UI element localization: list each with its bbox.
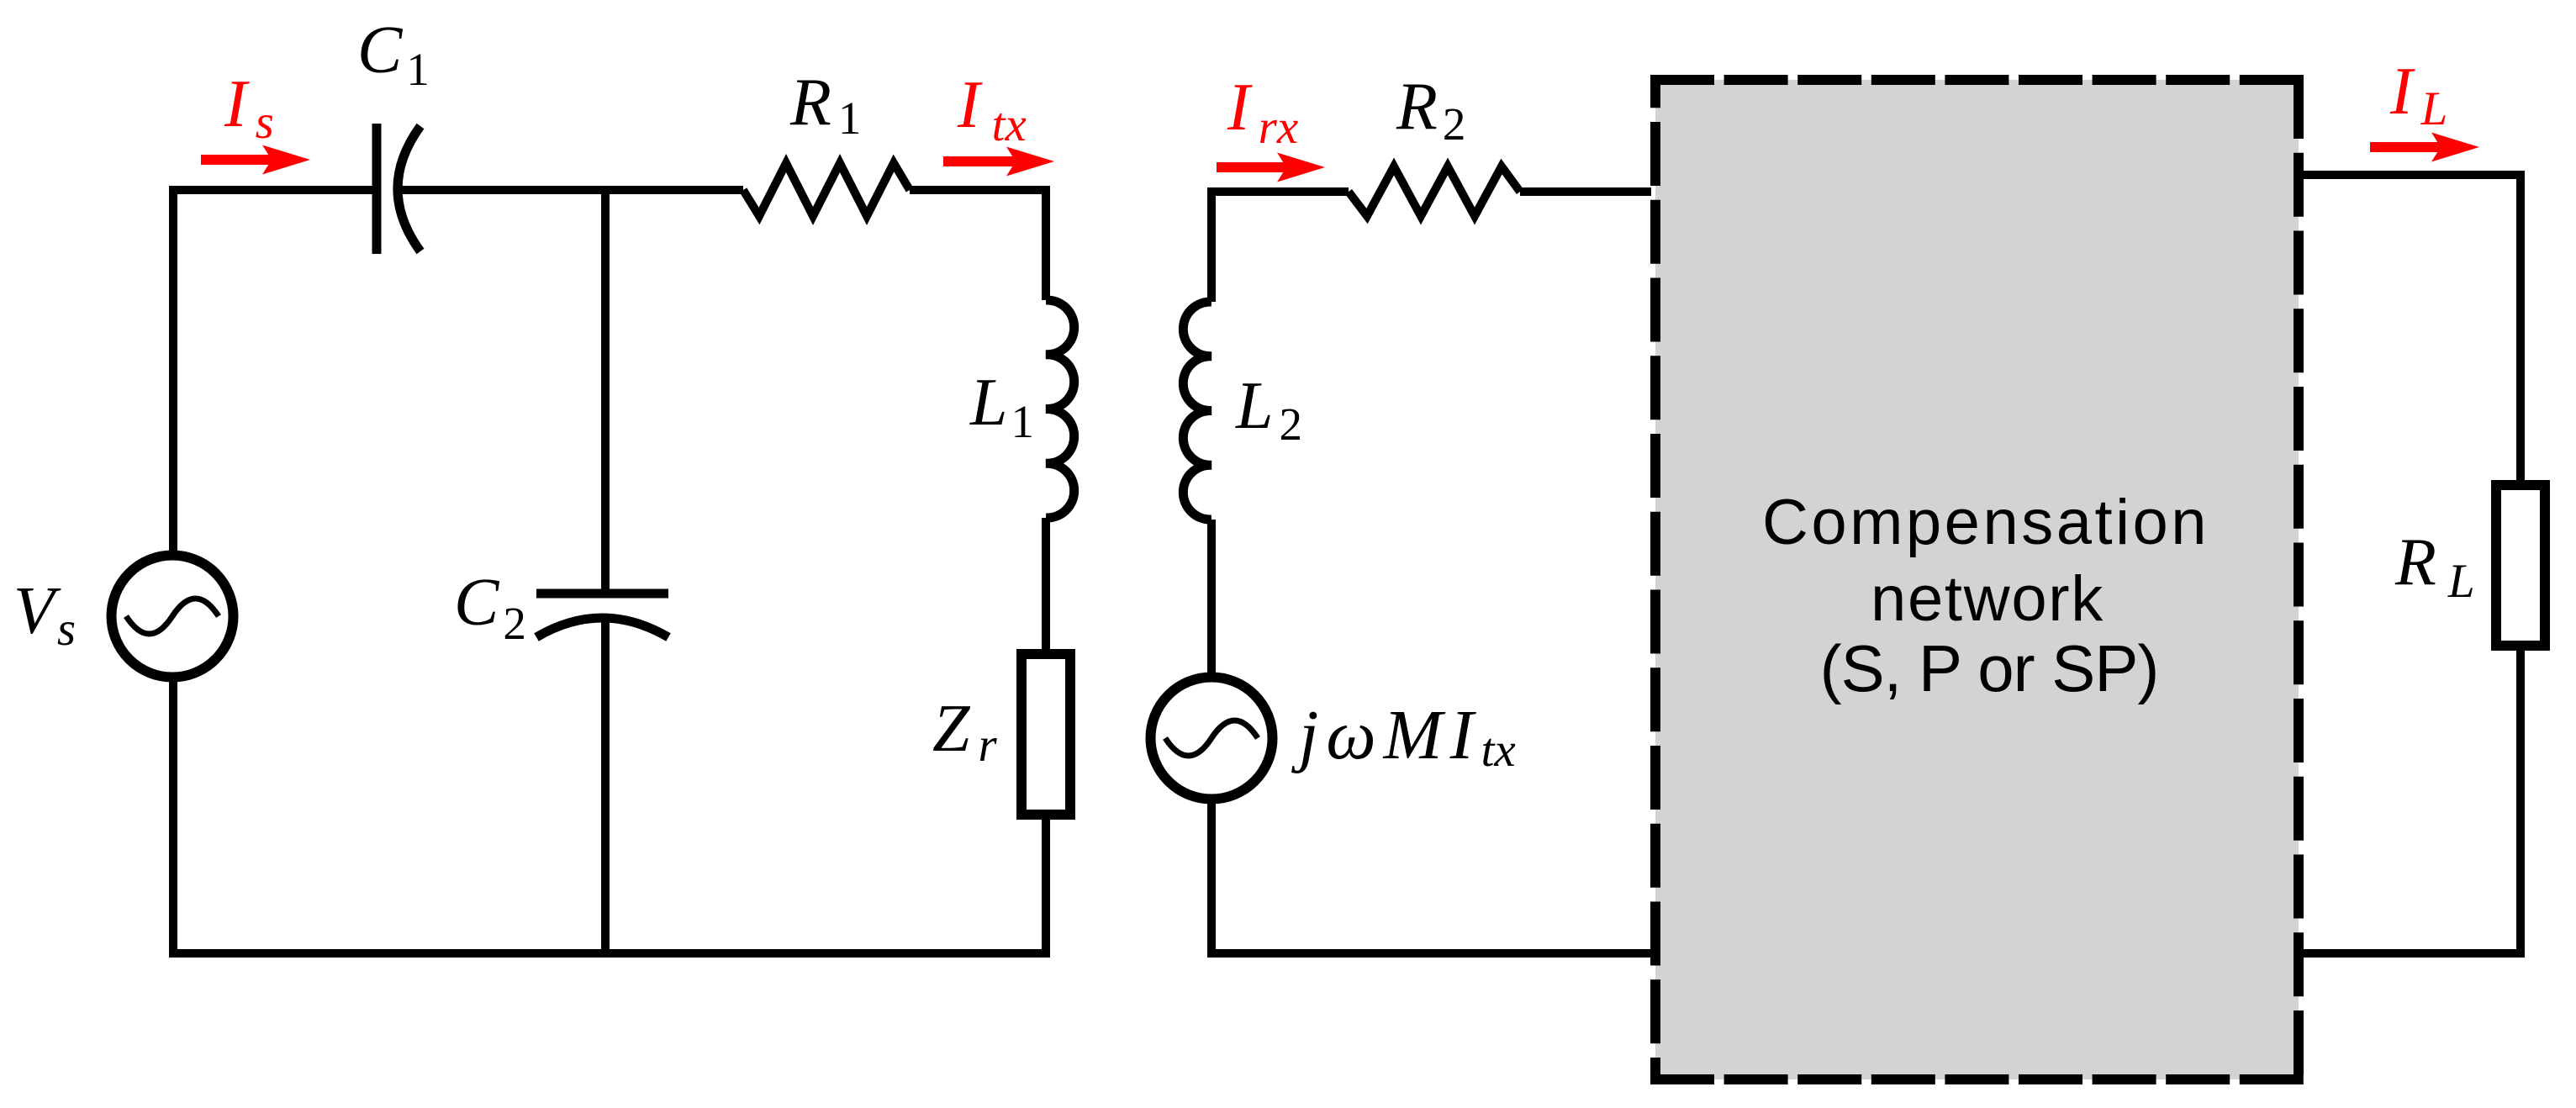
capacitor C1 <box>377 124 420 254</box>
wire top-left from source to C1 <box>173 186 372 194</box>
dependent source jwMItx <box>1151 678 1273 799</box>
inductor L2 <box>1183 302 1211 520</box>
left vertical wire upper <box>169 186 177 555</box>
wire box to RL top <box>2304 175 2521 485</box>
wire Zr to bottom <box>1042 813 1050 958</box>
wire L1 to Zr <box>1042 518 1050 656</box>
current arrow IL <box>2370 133 2479 162</box>
bottom wire load loop <box>2304 949 2525 958</box>
voltage source Vs <box>112 556 234 678</box>
capacitor C2 <box>536 594 668 637</box>
wire C2 to bottom <box>601 620 610 953</box>
compensation network box <box>1650 75 2304 1084</box>
inductor L1 <box>1046 300 1074 518</box>
impedance Zr <box>1021 654 1070 815</box>
resistor R1 <box>743 163 910 216</box>
current arrow Is <box>201 145 310 175</box>
svg-text:(S, P or SP): (S, P or SP) <box>1820 631 2159 705</box>
RX: wire top corner L2 <box>1211 192 1349 302</box>
junction wire to C2 <box>601 190 610 589</box>
resistor R2 <box>1349 166 1520 216</box>
wire R1 to L1 corner <box>910 190 1046 300</box>
svg-text:network: network <box>1871 563 2104 635</box>
left vertical wire lower <box>169 678 177 958</box>
compensation network label <box>1762 487 2209 705</box>
bottom wire RX loop <box>1207 949 1651 958</box>
load resistor RL <box>2496 485 2545 646</box>
wire R2 to box <box>1520 187 1651 196</box>
svg-text:Compensation: Compensation <box>1762 487 2209 558</box>
bottom wire TX loop <box>169 949 1050 958</box>
wire source to bottom <box>1207 799 1216 958</box>
wire C1 to R1 <box>399 186 743 194</box>
current arrow Irx <box>1217 153 1325 182</box>
wire RL to bottom <box>2516 643 2525 958</box>
wire L2 to source <box>1207 520 1216 677</box>
current arrow Itx <box>943 147 1054 177</box>
